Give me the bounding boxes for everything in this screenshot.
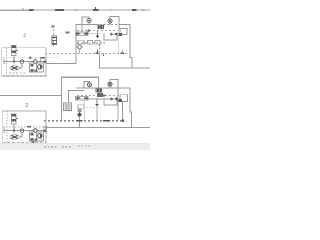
wire pump riser M2 (21, 132, 23, 137)
svg-text:2: 2 (25, 103, 28, 109)
component small box A2 (88, 41, 93, 45)
component small box A (78, 40, 84, 44)
node mark A (66, 32, 70, 34)
valve stack A left (52, 36, 57, 45)
wire vertical M1 right (40, 57, 42, 63)
node dark segment D2 (55, 9, 64, 11)
status bar (0, 143, 150, 150)
status text marks (44, 146, 58, 148)
component port circle B (78, 109, 81, 112)
wire L-connector B (104, 99, 117, 105)
valve relief loop A2 (110, 17, 119, 30)
wire vertical B right light (117, 96, 119, 121)
node mark top of dashed A left (52, 25, 55, 27)
wire arrow down A (97, 31, 99, 37)
valve diamond M2 (33, 128, 37, 132)
valve diamond B (77, 112, 82, 117)
wire top supply line (0, 9, 150, 11)
node dark segment drain B under diamond (77, 120, 83, 122)
wire V1 down (13, 56, 15, 62)
component pump M2 (10, 135, 20, 139)
wire dashed pilot line A (77, 30, 118, 32)
node junction B (121, 120, 124, 122)
wire dashed pilot line B (77, 95, 118, 97)
node junction dot M2 (13, 130, 15, 132)
component small box B1 (78, 105, 84, 109)
wire group A right drop (130, 24, 132, 68)
wire V2 down (13, 124, 15, 131)
wire vertical A right light (118, 29, 120, 54)
valve hatch block B (96, 88, 103, 92)
valve pair frame M2 (30, 132, 44, 141)
valve pair frame M1 (30, 63, 44, 72)
wire dashed down connector A (99, 44, 101, 54)
valve relief loop B1 (84, 82, 90, 88)
wire down stub M2 (33, 141, 35, 144)
wire riser valve pair M2 (34, 131, 36, 133)
wire main line 2 left (0, 77, 99, 95)
node dark segment D1 (29, 9, 34, 11)
wire L-connector A (104, 34, 117, 40)
wire dashed short B (86, 106, 105, 108)
wire group B right drop (130, 88, 132, 128)
wire vertical B mid (122, 102, 124, 121)
valve check A bowtie (110, 32, 114, 36)
wire pump riser M1 (21, 63, 23, 68)
node tick T1 on top line (22, 8, 24, 10)
component box A right (120, 29, 127, 35)
component module 2 enclosure (2, 111, 46, 144)
wire mid main line (99, 67, 150, 69)
component pump M1 (10, 66, 20, 70)
valve diamond under box A (77, 45, 82, 50)
node dark segment D3 with tick (93, 9, 99, 11)
valve row B (76, 97, 89, 100)
node junction dot M1 (13, 61, 15, 63)
wire group B pipe (76, 87, 130, 89)
valve hatch block A (98, 25, 105, 29)
valve diamond M1 (33, 59, 37, 63)
wire W1 vertical lower (61, 96, 63, 121)
wire bottom main line (46, 127, 150, 129)
node dark segment D4 (132, 9, 137, 11)
svg-text:06: 06 (43, 124, 48, 129)
wire riser valve pair M1 (34, 62, 36, 64)
wire dashed enclosure A left (53, 25, 55, 49)
valve X on pilot line B (97, 93, 103, 97)
wire arrow down B (96, 99, 98, 105)
wire vertical B arrow drop (96, 107, 98, 120)
wire riser A (81, 24, 83, 32)
component small box B (64, 103, 72, 111)
component box B right (120, 95, 128, 102)
component module 1 enclosure (2, 48, 46, 76)
wire dashed inner vertical M2 (6, 111, 8, 144)
node dark dot on dashed M1 (29, 57, 32, 59)
wire module 1 bottom border dark (3, 75, 47, 77)
node cross M1 (3, 59, 5, 65)
wire solid line B (88, 98, 110, 100)
wire bus M2 (4, 130, 46, 132)
wire dashed drain B (44, 120, 123, 122)
wire dashed inner vertical M1 (6, 48, 8, 76)
valve relief loop B2 (110, 80, 118, 96)
valve V2 (12, 114, 17, 124)
valve V1 (12, 46, 17, 56)
wire bus M1 (4, 61, 46, 63)
node cross M2 (3, 128, 5, 134)
wire dashed under pump M1 (9, 72, 26, 74)
node junction A1 (88, 30, 91, 32)
node tick M1 (30, 56, 32, 59)
wire module 2 bottom border dark (3, 142, 46, 144)
component port circle M2 (20, 129, 24, 133)
component port circle M1 (20, 60, 24, 64)
node dark segment return A2 (121, 52, 125, 54)
wire group A main pipe (46, 24, 98, 63)
wire dashed inner horizontal M1 (3, 57, 62, 59)
node dark segment drain B (103, 120, 110, 122)
svg-text:2: 2 (23, 32, 26, 38)
valve row A (76, 32, 89, 35)
valve check B bowtie (110, 97, 114, 101)
wire dashed drain row A (77, 42, 105, 44)
wire dashed inner horizontal M2 (3, 126, 46, 128)
node dark dash M2 (27, 126, 31, 128)
wire W2 (69, 91, 85, 104)
component small box A3 (95, 41, 100, 45)
svg-text:J: J (40, 138, 42, 143)
wire vertical B x84 (83, 100, 85, 121)
wire dashed return row A (45, 53, 129, 55)
valve relief loop A1 (82, 17, 89, 24)
node dark segment return A1 (96, 52, 99, 54)
node dark dash M1 (40, 57, 45, 59)
